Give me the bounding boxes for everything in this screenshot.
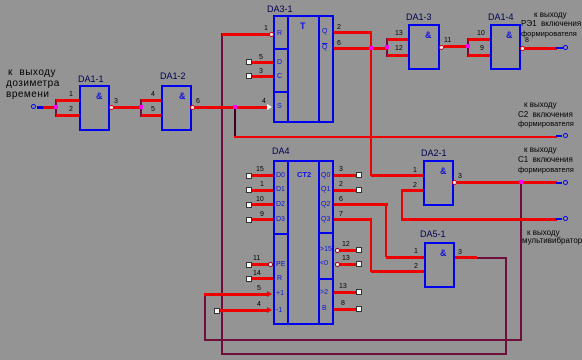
terminal X4 C1 — [556, 182, 562, 184]
wire pin 13 stub — [340, 263, 357, 266]
pin number 1 DA1-1 — [69, 91, 73, 99]
label -1 — [276, 307, 282, 315]
label B — [322, 305, 327, 313]
pin number 3 DA1-1 output — [114, 98, 118, 106]
terminal X1 input — [31, 104, 36, 109]
pin number 3 DA5-1 output — [458, 249, 462, 257]
junction node at S wire — [233, 105, 237, 109]
wire loop DA2-1 out down to +1 — [520, 184, 522, 341]
pin number 3 DA2-1 output — [458, 173, 462, 181]
inversion circle pin 13 — [335, 262, 340, 267]
wire R pin from long vertical — [222, 33, 271, 36]
pin number 4 DA3-1 S — [262, 98, 266, 106]
pin number 1 DA3-1 R — [264, 25, 268, 33]
node fork DA1-2 inputs — [140, 99, 142, 117]
output marker DA1-1 — [109, 105, 114, 110]
label: к выходу С1 включения формирователя — [524, 145, 557, 154]
wire vertical to DA3-1 R — [221, 33, 223, 355]
label >2 — [320, 289, 328, 297]
label D3 — [276, 216, 285, 224]
wire DA2-1 pin 2 from terminal net — [401, 189, 423, 192]
wire Q1 stub pin 2 — [334, 189, 356, 192]
stub pin 11 PE — [246, 262, 252, 268]
inversion circle pin 12 — [335, 248, 340, 253]
wire Q2 out to fork DA1-3 — [334, 47, 387, 50]
gate DA1-1 — [79, 85, 110, 131]
wire pin 5 +1 from loop — [204, 293, 267, 296]
wire pin 12 stub — [340, 249, 357, 252]
pin number 5 DA1-2 — [151, 106, 155, 114]
pin marker R DA3-1 — [269, 32, 274, 37]
wire long horizontal to terminal C2 — [234, 136, 557, 138]
dynamic arrow pin 5 — [267, 291, 272, 297]
stub pin 5 D DA3-1 — [246, 59, 252, 65]
output marker DA2-1 — [452, 180, 457, 185]
pin number 6 DA1-2 output — [196, 98, 200, 106]
label PE — [276, 261, 285, 269]
wire Q out to right and down to DA2-1 pin 1 — [334, 31, 372, 34]
node fork DA1-4 inputs — [467, 38, 469, 57]
stub pin 4 -1 — [214, 308, 220, 314]
wire pin 13b stub — [334, 291, 356, 294]
wire DA1-2 out to DA3-1 S pin 4 — [195, 106, 268, 109]
pin number 2 DA3-1 Q — [337, 24, 341, 32]
label R pin DA3-1 — [277, 30, 282, 38]
terminal X2 — [563, 45, 568, 50]
S pin arrow DA3-1 — [267, 104, 272, 110]
wire input to fork — [43, 106, 57, 109]
wire DA5-1 out — [455, 256, 477, 259]
pin number 10 DA1-4 — [477, 30, 485, 38]
stub pin 9 D3 — [246, 217, 252, 223]
node fork DA1-1 inputs — [55, 99, 57, 117]
output marker DA1-4 — [520, 46, 525, 51]
pin number 6 DA3-1 Q2 — [337, 40, 341, 48]
terminal X5 — [556, 218, 562, 220]
pin number 2 DA1-1 — [69, 106, 73, 114]
label D1 — [276, 186, 285, 194]
pin number 2 DA2-1 — [413, 182, 417, 190]
junction node DA2-1 out — [519, 180, 523, 184]
label: к выходу дозиметра времени — [8, 68, 56, 77]
label S pin DA3-1 — [277, 103, 282, 111]
output marker DA1-2 — [190, 105, 195, 110]
pin number 9 DA1-4 — [480, 45, 484, 53]
wire drop from junction to C2 line — [234, 108, 236, 137]
stub pin 10 D2 — [246, 202, 252, 208]
pin number 13 DA1-3 — [395, 30, 403, 38]
label C pin DA3-1 — [277, 73, 282, 81]
wire DA2-1 out to terminal X4 — [457, 181, 557, 184]
label Q2 — [321, 201, 330, 209]
gate DA5-1 — [424, 242, 455, 288]
stub pin 15 D0 — [246, 173, 252, 179]
junction node Q cross — [369, 46, 373, 50]
label D pin DA3-1 — [277, 59, 282, 67]
wire to terminal X5 — [401, 218, 557, 221]
pin number 1 DA5-1 — [414, 248, 418, 256]
trigger DA3-1 — [273, 15, 334, 123]
label R DA4 — [277, 275, 282, 283]
wire pin 8 stub — [334, 308, 356, 311]
gate DA1-4 — [490, 24, 521, 70]
label D2 — [276, 201, 285, 209]
label Q3 — [321, 216, 330, 224]
label Q0 — [321, 172, 330, 180]
pin number 4 DA1-2 — [151, 91, 155, 99]
label Q2 output DA3-1 — [322, 44, 327, 52]
label +1 — [276, 290, 284, 298]
label D0 — [276, 172, 285, 180]
pin number 1 DA2-1 — [413, 167, 417, 175]
dynamic arrow pin 4 — [267, 307, 272, 313]
label Q1 — [321, 186, 330, 194]
label: к выходу индикатора — [527, 228, 560, 237]
gate DA1-3 — [408, 24, 440, 70]
label: к выходу С2 включения формирователя — [524, 100, 557, 109]
label: к выходу РЭ1 включения формирователя — [534, 10, 567, 19]
output marker DA1-3 — [439, 45, 444, 50]
label Q output DA3-1 — [322, 28, 327, 36]
stub pin 14 R — [246, 276, 252, 282]
terminal X3 C2 — [556, 135, 562, 137]
counter DA4 — [273, 160, 334, 325]
inversion circle pin 11 — [268, 262, 273, 267]
wire Q0 stub pin 3 — [334, 174, 356, 177]
wire Q3 pin 7 to DA5-1 pin 2 — [334, 218, 372, 221]
wire Q2 pin 6 to DA5-1 pin 1 — [334, 203, 388, 206]
stub pin 3 C DA3-1 — [246, 73, 252, 79]
node fork DA1-3 inputs — [386, 38, 388, 57]
pin number 12 DA1-3 — [395, 45, 403, 53]
wire DA1-1 out to fork DA1-2 — [114, 106, 141, 109]
label <0 — [320, 260, 328, 268]
wire DA1-4 out to terminal — [525, 47, 557, 50]
wire loop DA5-1 out down to R line — [505, 257, 507, 355]
pin number 11 DA1-3 output — [444, 37, 451, 45]
pin number 8 DA1-4 output — [525, 37, 529, 45]
label >15 — [320, 246, 332, 254]
wire DA1-3 out to fork DA1-4 — [444, 45, 468, 48]
stub pin 1 D1 — [246, 187, 252, 193]
gate DA2-1 — [423, 160, 454, 206]
gate DA1-2 — [161, 85, 192, 131]
pin number 2 DA5-1 — [414, 263, 418, 271]
